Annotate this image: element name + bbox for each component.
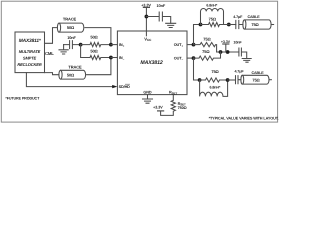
wire IN- into chip [111,57,118,59]
node termination common [79,43,83,47]
node B [226,50,230,54]
svg-text:50Ω: 50Ω [90,35,98,40]
capacitor 4.7uF (bottom coupling) [234,69,244,83]
svg-text:CML: CML [45,51,54,56]
node IN+ junction [109,43,113,47]
wire to coupling cap [227,24,236,26]
svg-text:6.8nH*: 6.8nH* [206,4,217,8]
transmission line TRACE 50ohm (top) [57,17,83,33]
capacitor 10nF (VCC decoupling) [146,3,170,23]
svg-text:750Ω: 750Ω [178,106,187,110]
capacitor 4.7uF (top coupling) [233,15,243,29]
svg-text:6.8nH*: 6.8nH* [210,86,221,90]
ground (GND pin) [143,99,153,103]
svg-text:+3.3V: +3.3V [153,105,163,110]
pin VCC [144,31,152,42]
resistor 75ohm (top peaking) [201,16,228,26]
svg-text:4.7μF: 4.7μF [234,69,244,73]
node supply junction [145,15,149,19]
svg-text:SMPTE: SMPTE [23,55,37,60]
svg-text:RECLOCKER: RECLOCKER [17,62,41,67]
node bottom network left [198,78,202,82]
capacitor 10nF (termination) [64,35,81,49]
node IN- junction [109,56,113,60]
svg-text:*TYPICAL VALUE VARIES WITH LAY: *TYPICAL VALUE VARIES WITH LAYOUT. [209,117,279,121]
svg-text:50Ω: 50Ω [90,48,98,53]
capacitor 10nF (pullup decoupling) [233,40,246,58]
svg-text:75Ω: 75Ω [202,49,210,54]
ground (pullup decoupling) [242,59,251,63]
wire OUT+ pin stub [187,44,194,46]
svg-text:CABLE: CABLE [251,71,264,75]
svg-text:4.7μF: 4.7μF [233,15,243,19]
resistor 50ohm (IN+ termination) [81,35,111,47]
svg-text:SD/HD: SD/HD [119,85,131,89]
wire OUT- riser to bottom network [194,58,200,80]
svg-text:75Ω: 75Ω [252,77,260,82]
svg-text:10nF: 10nF [233,40,242,44]
inductor 6.8nH (top peaking) [201,4,224,25]
power +3.3V (top supply) [141,2,151,31]
wire termination branch down [81,45,90,58]
power +3.3V (output pullup) [221,40,231,52]
svg-text:10nF: 10nF [156,3,165,8]
ground (VCC decoupling) [166,23,176,27]
node A [219,50,223,54]
resistor 50ohm (IN- termination) [90,48,111,59]
ground (termination) [59,45,68,54]
svg-text:75Ω: 75Ω [251,22,259,27]
wire trace2 to IN- riser [87,58,111,75]
transmission line TRACE 50ohm (bottom) [59,64,86,79]
wire SD/HD net [26,73,112,87]
cable 75ohm (bottom) [241,71,271,84]
svg-text:OUT+: OUT+ [174,43,184,48]
svg-text:TRACE: TRACE [63,17,77,22]
wire GND pin stub [147,95,149,99]
inductor 6.8nH (bottom peaking) [200,80,228,96]
resistor 75ohm (OUT- pullup) [194,49,221,60]
power +3.3V (RSET return) [153,105,164,111]
resistor RSET 750ohm [161,95,187,116]
pin SD/HD label with overline [119,84,131,89]
resistor 75ohm (OUT+ pullup) [194,37,217,52]
svg-text:50Ω: 50Ω [67,25,75,30]
svg-text:MAX3811*: MAX3811* [19,38,42,44]
svg-text:10nF: 10nF [67,35,76,40]
svg-text:*FUTURE PRODUCT: *FUTURE PRODUCT [5,96,40,100]
wire trace1 to IN+ riser [85,28,111,45]
IC U1 MAX3811 multirate SMPTE reclocker block [15,32,45,73]
wire OUT+ riser to top network [194,25,201,45]
wire +3.3V node line [217,51,239,53]
svg-text:+3.3V: +3.3V [221,40,231,44]
wire to coupling cap (bottom) [228,79,236,81]
svg-text:OUT–: OUT– [174,57,184,62]
node bottom network right [226,78,230,82]
svg-text:TRACE: TRACE [68,64,82,69]
IC U2 MAX3812 SMPTE cable driver block [117,31,187,95]
wire CML- pin to trace2 [45,73,59,75]
svg-text:IN+: IN+ [119,43,125,48]
svg-text:75Ω: 75Ω [203,37,211,42]
node OUT- [192,56,196,60]
resistor 75ohm (bottom peaking) [200,69,228,82]
border frame [1,1,277,122]
svg-text:IN–: IN– [119,56,125,61]
node top network left [199,23,203,27]
wire IN+ into chip [111,44,118,46]
svg-text:50Ω: 50Ω [67,72,75,77]
cable 75ohm (top) [243,15,274,29]
svg-text:MULTIRATE: MULTIRATE [19,49,41,54]
node OUT+ [192,43,196,47]
node SD/HD input arrowhead [112,85,117,88]
wire OUT- pin stub [187,57,194,59]
svg-text:CABLE: CABLE [247,15,260,19]
svg-text:75Ω: 75Ω [209,16,217,21]
wire CML+ pin to trace1 [45,28,58,44]
svg-text:MAX3812: MAX3812 [140,60,162,66]
svg-text:+3.3V: +3.3V [141,2,151,7]
node top network right [227,23,231,27]
svg-text:VCC: VCC [144,36,152,42]
svg-text:75Ω: 75Ω [211,69,219,74]
